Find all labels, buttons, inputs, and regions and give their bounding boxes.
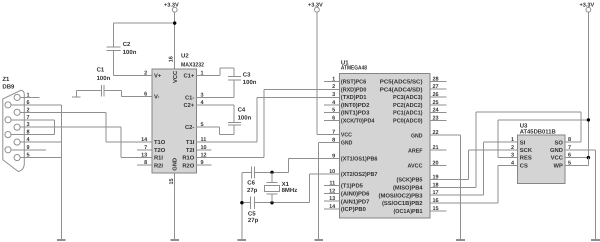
svg-text:2: 2 — [144, 70, 147, 76]
svg-text:(SS/OC1B)PB2: (SS/OC1B)PB2 — [382, 200, 423, 207]
svg-text:PC3(ADC3): PC3(ADC3) — [393, 94, 423, 101]
svg-text:(AIN0)PD6: (AIN0)PD6 — [341, 191, 370, 198]
svg-text:3: 3 — [511, 153, 514, 159]
svg-text:AREF: AREF — [408, 148, 423, 154]
svg-text:C2: C2 — [123, 41, 131, 48]
svg-text:Z1: Z1 — [2, 76, 10, 83]
svg-text:6: 6 — [144, 91, 147, 97]
svg-text:(T1)PD5: (T1)PD5 — [341, 183, 364, 190]
svg-text:(XCK/T0)PD4: (XCK/T0)PD4 — [341, 118, 375, 125]
svg-text:C1-: C1- — [185, 95, 194, 102]
svg-text:7: 7 — [27, 115, 30, 121]
svg-text:3: 3 — [27, 122, 30, 128]
svg-text:T2I: T2I — [186, 147, 195, 154]
svg-text:1: 1 — [27, 92, 30, 98]
svg-text:GND: GND — [341, 140, 353, 147]
svg-text:VCC: VCC — [341, 132, 353, 139]
svg-text:SCK: SCK — [520, 147, 533, 154]
svg-text:C4: C4 — [238, 107, 246, 114]
svg-text:MAX3232: MAX3232 — [181, 61, 205, 68]
svg-text:ATMEGA48: ATMEGA48 — [341, 65, 368, 72]
svg-text:(RXD)PD0: (RXD)PD0 — [341, 86, 367, 93]
svg-text:(INT0)PD2: (INT0)PD2 — [341, 102, 370, 109]
svg-text:R1O: R1O — [182, 155, 194, 162]
svg-text:15: 15 — [169, 178, 175, 184]
svg-text:+3.3V: +3.3V — [164, 2, 179, 8]
svg-text:AT45DB011B: AT45DB011B — [520, 129, 557, 136]
svg-text:V-: V- — [154, 95, 160, 101]
svg-text:C3: C3 — [243, 71, 251, 78]
svg-text:RES: RES — [520, 155, 532, 162]
svg-text:2: 2 — [27, 107, 30, 113]
svg-text:CS: CS — [520, 162, 528, 169]
svg-text:+3.3V: +3.3V — [308, 2, 323, 8]
svg-text:U2: U2 — [181, 53, 189, 60]
svg-text:C2+: C2+ — [184, 102, 195, 109]
svg-text:WP: WP — [554, 163, 563, 169]
svg-text:100n: 100n — [243, 79, 257, 86]
svg-text:V+: V+ — [154, 73, 162, 79]
svg-text:(SCK)PB5: (SCK)PB5 — [397, 177, 424, 184]
svg-text:8: 8 — [568, 137, 571, 143]
svg-text:(TXD)PD1: (TXD)PD1 — [341, 94, 367, 101]
svg-text:PC0(ADC0): PC0(ADC0) — [393, 118, 423, 125]
svg-text:27p: 27p — [247, 187, 258, 194]
svg-text:(XT1/OS1)PB6: (XT1/OS1)PB6 — [341, 155, 378, 162]
svg-text:C2-: C2- — [185, 124, 194, 131]
svg-text:C1: C1 — [97, 67, 105, 74]
svg-text:6: 6 — [27, 100, 30, 106]
svg-text:(ICP)PB0: (ICP)PB0 — [341, 206, 366, 213]
svg-text:PC4(ADC4/SD): PC4(ADC4/SD) — [380, 86, 423, 93]
svg-text:100n: 100n — [97, 75, 111, 82]
svg-text:C1+: C1+ — [184, 72, 195, 79]
svg-text:R2I: R2I — [154, 162, 163, 169]
svg-text:T2O: T2O — [154, 147, 166, 154]
svg-text:100n: 100n — [123, 49, 137, 56]
svg-text:1: 1 — [511, 137, 514, 143]
svg-text:PC2(ADC2): PC2(ADC2) — [393, 102, 423, 109]
svg-text:T1I: T1I — [186, 140, 195, 146]
svg-text:PC1(ADC1): PC1(ADC1) — [393, 110, 423, 117]
svg-text:T1O: T1O — [154, 139, 166, 146]
svg-text:(INT1)PD3: (INT1)PD3 — [341, 110, 370, 117]
svg-text:(MOSI/OC2)PB3: (MOSI/OC2)PB3 — [379, 192, 424, 199]
svg-text:GND: GND — [172, 158, 179, 171]
svg-text:C5: C5 — [248, 211, 256, 218]
svg-text:27p: 27p — [248, 217, 259, 224]
svg-text:(OC1A)PB1: (OC1A)PB1 — [394, 208, 424, 215]
svg-text:VCC: VCC — [551, 155, 564, 162]
svg-text:+3.3V: +3.3V — [580, 2, 595, 8]
svg-text:DB9: DB9 — [2, 84, 15, 91]
svg-text:U3: U3 — [520, 123, 528, 130]
svg-text:16: 16 — [168, 56, 174, 62]
svg-text:(AIN1)PD7: (AIN1)PD7 — [341, 198, 370, 205]
svg-text:VCC: VCC — [172, 70, 179, 83]
svg-text:(RST)PC6: (RST)PC6 — [341, 79, 367, 86]
svg-text:8MHz: 8MHz — [282, 187, 298, 194]
svg-text:PC5(ADC5/SC): PC5(ADC5/SC) — [380, 79, 423, 86]
svg-text:5: 5 — [27, 153, 30, 159]
svg-text:GND: GND — [411, 132, 423, 139]
svg-text:9: 9 — [27, 145, 30, 151]
svg-text:2: 2 — [511, 145, 514, 151]
svg-text:(XT2/OS2)PB7: (XT2/OS2)PB7 — [341, 171, 378, 178]
svg-text:3: 3 — [332, 92, 335, 98]
svg-text:100n: 100n — [238, 114, 252, 121]
svg-text:GND: GND — [550, 147, 563, 154]
svg-text:AVCC: AVCC — [408, 162, 424, 169]
svg-text:2: 2 — [332, 84, 335, 90]
svg-text:SO: SO — [555, 139, 564, 146]
svg-text:(MISO)PB4: (MISO)PB4 — [393, 185, 423, 192]
svg-text:C6: C6 — [247, 179, 255, 186]
svg-text:SI: SI — [520, 139, 526, 146]
svg-text:8: 8 — [27, 130, 30, 136]
svg-text:R1I: R1I — [154, 156, 163, 162]
svg-text:R2O: R2O — [182, 162, 194, 169]
